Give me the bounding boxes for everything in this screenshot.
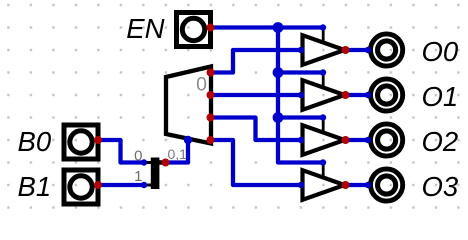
label O0 (422, 36, 459, 67)
junction EN trunk at buffer U2 row (273, 67, 284, 78)
wire decoder output 2 to buffer U3 input (211, 118, 302, 141)
output pin O3 (371, 169, 403, 201)
wire decoder output 3 to buffer U4 input (211, 140, 302, 185)
node buffer U2 output (red) (342, 91, 350, 99)
node pin O2 connection (365, 137, 371, 143)
node decoder select connection (184, 136, 192, 144)
label EN (126, 13, 164, 44)
node buffer U4 output (red) (342, 181, 350, 189)
node buffer U3 control pin (320, 114, 326, 120)
node buffer U3 output (red) (342, 136, 350, 144)
input pin B0 (64, 125, 98, 159)
node buffer U1 control pin (320, 24, 326, 30)
svg-text:0,1: 0,1 (168, 146, 188, 162)
label O3 (422, 171, 459, 202)
splitter SP1 (144, 158, 166, 190)
label splitter bit 1 (134, 168, 142, 185)
node pin EN output (red) (207, 24, 215, 32)
wire pin B1 to splitter leg 1 (98, 183, 144, 187)
decoder U5 (2-to-4) (166, 67, 211, 144)
node decoder output 0 (red) (207, 69, 215, 77)
junction EN trunk at buffer U3 row (273, 112, 284, 123)
node buffer U1 data input (298, 47, 304, 53)
node pin B1 output (red) (94, 181, 102, 189)
tri-state buffer U4 (303, 165, 345, 200)
node splitter leg 1 tip (141, 182, 147, 188)
node buffer U2 data input (298, 92, 304, 98)
label splitter bit 0 (134, 148, 142, 165)
tri-state buffer U2 (303, 75, 345, 110)
output pin O0 (371, 34, 403, 66)
wire decoder output 1 to buffer U2 input (211, 93, 302, 97)
node splitter leg 0 tip (141, 159, 147, 165)
node pin B0 output (red) (94, 136, 102, 144)
wire buffer U1 output to pin O0 (346, 48, 369, 52)
svg-text:1: 1 (134, 168, 142, 185)
wire pin B0 to splitter leg 0 (98, 140, 144, 163)
wire splitter combined end to decoder select (166, 140, 189, 163)
node buffer U1 output (red) (342, 46, 350, 54)
svg-text:B0: B0 (18, 126, 52, 157)
node decoder output 2 (red) (207, 114, 215, 122)
label O1 (422, 81, 459, 112)
node decoder output 1 (red) (207, 91, 215, 99)
wire EN trunk down to buffer U4 control (278, 28, 323, 163)
node buffer U4 control pin (320, 159, 326, 165)
node splitter combined end (red) (162, 159, 170, 167)
node buffer U3 data input (298, 137, 304, 143)
label O2 (422, 126, 459, 157)
svg-text:B1: B1 (18, 171, 52, 202)
node pin O1 connection (365, 92, 371, 98)
wire buffer U3 output to pin O2 (346, 138, 369, 142)
tri-state buffer U3 (303, 120, 345, 155)
wire EN branch to buffer U3 control (278, 115, 323, 119)
wire EN branch to buffer U2 control (278, 70, 323, 74)
svg-text:O2: O2 (422, 126, 459, 157)
label B1 (18, 171, 52, 202)
svg-text:0: 0 (196, 74, 207, 96)
wire EN net: pin EN to buffer U1 control (211, 25, 324, 29)
svg-text:O0: O0 (422, 36, 459, 67)
wire buffer U4 output to pin O3 (346, 183, 369, 187)
node buffer U4 data input (298, 182, 304, 188)
label splitter combined bits 0,1 (168, 146, 188, 162)
output pin O2 (371, 124, 403, 156)
output pin O1 (371, 79, 403, 111)
svg-text:EN: EN (126, 13, 164, 44)
node pin O0 connection (365, 47, 371, 53)
label decoder output 0 (196, 74, 207, 96)
tri-state buffer U1 (303, 30, 345, 65)
node pin O3 connection (365, 182, 371, 188)
svg-text:O1: O1 (422, 81, 459, 112)
junction EN trunk at buffer U1 row (273, 22, 284, 33)
wire decoder output 0 to buffer U1 input (211, 50, 302, 73)
node decoder output 3 (red) (207, 136, 215, 144)
svg-text:O3: O3 (422, 171, 459, 202)
label B0 (18, 126, 52, 157)
input pin B1 (64, 170, 98, 204)
input pin EN (177, 13, 211, 47)
node buffer U2 control pin (320, 69, 326, 75)
wire buffer U2 output to pin O1 (346, 93, 369, 97)
